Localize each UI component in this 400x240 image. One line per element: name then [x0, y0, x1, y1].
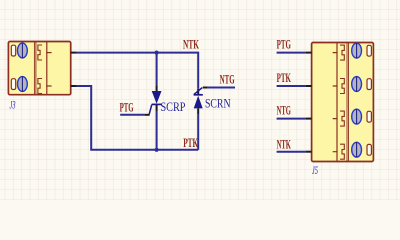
J5 pin 1: [306, 52, 312, 54]
J3 divider: [46, 42, 48, 95]
wire J5 PTG: [277, 52, 306, 54]
J3 screw 2: [18, 77, 28, 92]
J5 terminal opening row1: [367, 45, 371, 56]
J5 contact ticks: [333, 53, 337, 152]
junction top: [155, 51, 159, 55]
J3 screw 1: [18, 43, 28, 58]
J5 clamp bracket row2: [341, 79, 345, 94]
svg-text:NTG: NTG: [220, 72, 235, 87]
wire J5 NTG: [277, 118, 306, 120]
svg-text:NTG: NTG: [277, 102, 291, 117]
J5 clamp bracket row1: [341, 45, 345, 60]
J5 divider: [336, 43, 338, 162]
wire PTK bottom: [77, 86, 199, 150]
wire NTK top: [77, 53, 199, 89]
J5 internal double lines: [347, 43, 349, 162]
SCR SCRP: [149, 53, 161, 150]
J3 pin 2: [71, 85, 77, 87]
J3 internal double lines: [34, 42, 36, 95]
J5 screw 2: [352, 77, 362, 92]
J3 terminal opening row1: [11, 45, 15, 56]
svg-text:PTG: PTG: [277, 36, 291, 51]
J3 contact tick row1: [47, 52, 51, 54]
svg-text:NTK: NTK: [183, 36, 200, 51]
J3 clamp bracket row1: [38, 45, 42, 60]
SCRN gate pin: [203, 87, 207, 89]
J3 contact tick row2: [47, 85, 51, 87]
J5 clamp bracket row3: [341, 111, 345, 126]
J5 screw 4: [352, 142, 362, 157]
SCR SCRN: [194, 88, 203, 150]
J5 screw 3: [352, 109, 362, 124]
connector J3: [8, 42, 70, 95]
J5 pin 3: [306, 118, 312, 120]
SCRP gate pin: [145, 114, 150, 116]
J5 screw 1: [352, 43, 362, 58]
svg-text:J3: J3: [10, 98, 16, 112]
J5 pin 2: [306, 85, 312, 87]
J5 terminal opening row2: [367, 79, 371, 90]
J3 pin 1: [71, 52, 77, 54]
J5 clamp bracket row4: [341, 144, 345, 159]
J3 clamp bracket row2: [38, 79, 42, 94]
svg-text:PTG: PTG: [120, 99, 134, 114]
J5 terminal opening row4: [367, 144, 371, 155]
J3 terminal opening row2: [11, 79, 15, 90]
svg-text:PTK: PTK: [183, 135, 198, 150]
connector J5: [312, 43, 374, 162]
junction bottom: [155, 148, 159, 152]
wire PTG gate: [120, 114, 144, 116]
svg-text:SCRP: SCRP: [161, 99, 186, 114]
wire NTG: [207, 87, 235, 89]
wire J5 PTK: [277, 85, 306, 87]
svg-text:NTK: NTK: [277, 136, 292, 151]
wire J5 NTK: [277, 151, 306, 153]
J5 terminal opening row3: [367, 111, 371, 122]
svg-text:J5: J5: [312, 163, 318, 177]
svg-text:PTK: PTK: [277, 70, 292, 85]
svg-text:SCRN: SCRN: [205, 95, 231, 110]
J5 pin 4: [306, 151, 312, 153]
